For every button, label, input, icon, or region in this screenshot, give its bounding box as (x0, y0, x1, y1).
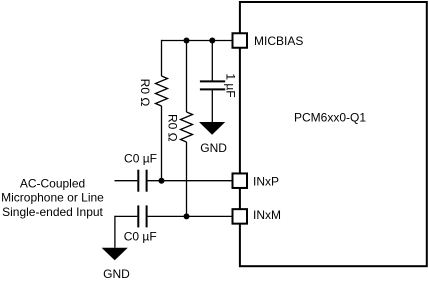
wire R1 top (161, 40, 163, 76)
pin INxP (233, 173, 248, 188)
wire INxP left (115, 180, 138, 182)
svg-text:GND: GND (200, 141, 227, 155)
svg-text:PCM6xx0-Q1: PCM6xx0-Q1 (294, 111, 366, 125)
svg-text:MICBIAS: MICBIAS (254, 34, 303, 48)
svg-text:Single-ended Input: Single-ended Input (2, 205, 103, 219)
junction dot (C1 / MICBIAS bus) (209, 38, 215, 44)
wire C1 bottom (211, 89, 213, 122)
wire INxM to ground (114, 216, 117, 247)
svg-text:1 µF: 1 µF (224, 73, 238, 97)
wire R2 bottom (186, 142, 188, 216)
resistor R1 R0 (156, 76, 168, 106)
IC U1 PCM6xx0-Q1 (240, 2, 427, 266)
wire R2 top (186, 41, 188, 113)
wire R1 bottom (161, 106, 163, 181)
junction dot (R2 / INxM) (184, 213, 190, 219)
wire C1 top (211, 41, 213, 82)
resistor R2 R0 (181, 112, 193, 142)
svg-text:R0 Ω: R0 Ω (165, 114, 179, 142)
svg-text:C0 µF: C0 µF (124, 152, 157, 166)
svg-text:R0 Ω: R0 Ω (138, 79, 152, 107)
svg-text:Microphone or Line: Microphone or Line (1, 191, 104, 205)
pin INxM (233, 209, 248, 224)
wire INxP right (148, 180, 233, 182)
svg-text:INxM: INxM (253, 208, 281, 222)
capacitor C1 1uF (200, 81, 225, 89)
wire INxM right (148, 215, 233, 217)
capacitor C2 C0 uF (138, 170, 146, 192)
ground GND (bias) (199, 122, 225, 135)
junction dot (R1 / INxP) (159, 178, 165, 184)
junction dot (R2 / MICBIAS bus) (184, 38, 190, 44)
wire INxM left (115, 215, 137, 217)
wire MICBIAS bus (162, 40, 233, 42)
svg-text:GND: GND (103, 267, 130, 281)
svg-text:INxP: INxP (253, 175, 279, 189)
pin MICBIAS (233, 33, 248, 48)
note AC-coupled input description (1, 177, 104, 220)
svg-text:AC-Coupled: AC-Coupled (20, 177, 85, 191)
ground GND (input) (102, 248, 128, 260)
svg-text:C0 µF: C0 µF (124, 229, 157, 243)
capacitor C3 C0 uF (138, 205, 146, 227)
